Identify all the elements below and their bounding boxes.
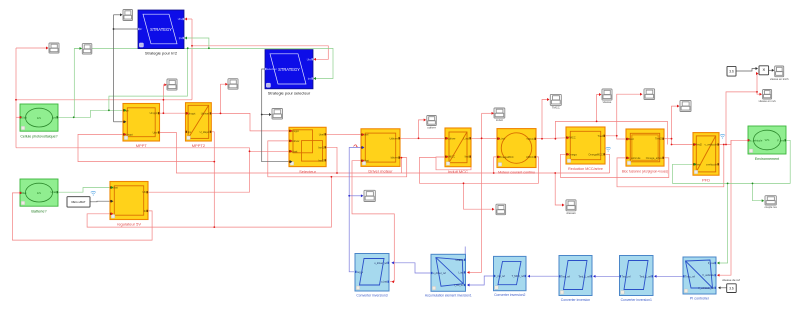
block Converter inversion	[559, 256, 592, 302]
wire F_res loop	[673, 140, 791, 183]
svg-text:STRATEGY: STRATEGY	[150, 27, 172, 32]
svg-text:V_vehicule_ref: V_vehicule_ref	[698, 287, 714, 290]
svg-text:UMCC: UMCC	[526, 155, 534, 159]
arrowhead into PI vref	[718, 286, 721, 289]
wire Isel1 branch	[323, 147, 337, 173]
arrowhead into MPPT Ipv	[124, 109, 127, 112]
wire Umppt right vert	[191, 19, 193, 100]
arrowhead into selecteur Udriver	[290, 139, 293, 142]
junction Ipv branch2	[108, 109, 110, 111]
svg-text:u_bat: u_bat	[381, 281, 387, 284]
svg-text:Upv: Upv	[153, 131, 158, 135]
junction Iind branch	[481, 137, 483, 139]
scope S2 Ipv	[82, 44, 92, 55]
svg-text:Converter inversion1: Converter inversion1	[621, 298, 652, 302]
badge logging badge regubat	[91, 191, 96, 195]
svg-text:UBEC3: UBEC3	[456, 259, 465, 262]
wire strategy2 selecteur net	[262, 69, 291, 162]
arrowhead into PFD Tred2	[694, 143, 697, 146]
svg-text:Tred_1_ref: Tred_1_ref	[578, 275, 590, 278]
wire F_res to PI	[718, 183, 728, 263]
badge logging badge reduction	[606, 147, 611, 151]
scope S6	[167, 79, 177, 90]
svg-text:Environnement: Environnement	[755, 157, 779, 161]
svg-text:Iind: Iind	[465, 155, 470, 159]
wire Iind to scope	[482, 112, 493, 114]
junction MPPT2 out branch	[220, 113, 222, 115]
block product	[759, 66, 769, 75]
arrowhead into scope MPPT2	[225, 83, 228, 86]
svg-text:Isel1: Isel1	[318, 145, 324, 149]
scope S10 TMCC	[550, 94, 561, 109]
wire Ipv top horiz	[74, 48, 333, 78]
wire MPPT2 out up to scope	[221, 84, 227, 113]
scope S17 imcc	[496, 204, 506, 215]
svg-text:Udriver: Udriver	[291, 139, 299, 143]
scope S11 vitesse	[602, 89, 612, 104]
svg-text:STRATEGY: STRATEGY	[278, 67, 300, 72]
arrowhead into regulateur p3	[111, 212, 114, 215]
svg-text:Udd: Udd	[22, 115, 27, 119]
arrowhead into MPPT2 Umppt	[186, 112, 189, 115]
block Accumulation element inversion1	[425, 254, 472, 297]
arrowhead into scope couple	[762, 199, 765, 202]
arrowhead into scope4	[269, 113, 272, 116]
wire Tred to S18	[617, 94, 641, 136]
scope S7 udriver	[427, 116, 437, 130]
wire S16 feed	[555, 173, 563, 205]
svg-text:Isel2: Isel2	[318, 158, 324, 162]
wire vv to mult	[756, 74, 759, 92]
svg-text:V_vehicule: V_vehicule	[702, 274, 714, 277]
svg-text:Accumulation element inversion: Accumulation element inversion1	[425, 294, 472, 298]
wire Umppt to scope Upv	[16, 47, 47, 49]
svg-text:ES: ES	[37, 116, 41, 120]
arrowhead into scope S17	[492, 208, 495, 211]
wire UMCC loop	[436, 157, 471, 170]
arrowhead into reduction TMCC	[567, 136, 570, 139]
svg-text:vitesse en km/h: vitesse en km/h	[770, 77, 789, 81]
junction vv up branch	[756, 91, 758, 93]
svg-text:v_vehicule: v_vehicule	[750, 138, 763, 142]
junction Umppt strategy branch	[191, 45, 193, 47]
block regulateur 5V	[110, 182, 148, 227]
wire Ipv up vert	[73, 48, 75, 117]
wire accum to conv3	[392, 263, 431, 273]
svg-text:Converter inversion3: Converter inversion3	[356, 293, 387, 297]
wire conv to conv2	[528, 275, 560, 277]
svg-text:OmegaMCC: OmegaMCC	[499, 155, 514, 159]
junction U_dispo mid branch	[213, 161, 215, 163]
svg-text:udriver: udriver	[427, 126, 436, 130]
wire TMCC out	[533, 138, 568, 139]
junction vv branch2	[725, 144, 727, 146]
block PI controller	[683, 257, 716, 300]
arrowhead into reduction Omega	[567, 153, 570, 156]
svg-text:WS: WS	[765, 138, 770, 142]
scope S14 vitesse m/s	[759, 90, 777, 104]
svg-text:Tred: Tred	[598, 134, 604, 138]
block Converter inversion3	[355, 254, 389, 298]
wire S17 feed	[464, 183, 494, 209]
wire Ipv main	[58, 110, 125, 117]
block Bloc fusionne	[622, 129, 668, 173]
svg-text:Udriver: Udriver	[201, 111, 209, 115]
arrowhead into scope kmh	[772, 69, 775, 72]
arrowhead into conv1	[654, 275, 657, 278]
wire Tred upper horiz	[555, 121, 667, 144]
arrowhead into selecteur sel	[290, 160, 293, 163]
junction Tred2 join	[671, 144, 673, 146]
scope S16 vitesse arbre	[566, 200, 576, 215]
junction TMCC branch	[541, 138, 543, 140]
wire Omega moteur feed	[494, 157, 499, 173]
arrowhead into scope vitesse	[599, 93, 602, 96]
svg-text:Omega: Omega	[568, 152, 577, 156]
scope S1 Upv	[49, 43, 59, 53]
svg-text:vitesse en m/s: vitesse en m/s	[759, 99, 777, 103]
junction Umppt left	[15, 99, 17, 101]
svg-text:I_ind: I_ind	[458, 271, 464, 274]
arrowhead into scope S12	[677, 105, 680, 108]
junction vitesse branch	[596, 121, 598, 123]
wire batterie Ubat out	[58, 188, 112, 193]
wire v_vehicule out	[719, 144, 731, 146]
svg-text:Strategie pour Irr2: Strategie pour Irr2	[145, 50, 178, 55]
junction Omega moteur join	[493, 172, 495, 174]
arrowhead into strategy2 Ipv	[314, 77, 317, 80]
wire bk scope3 stub	[114, 14, 122, 16]
wire MPPT out up to scope	[163, 85, 165, 113]
block Reduction MCC arbre	[566, 127, 605, 171]
block Cellule photovoltaique	[20, 104, 58, 138]
svg-text:regulateur 5V: regulateur 5V	[117, 222, 141, 227]
arrowhead into fusion vv	[627, 156, 630, 159]
block MPPT	[123, 104, 160, 149]
arrowhead into scope S16b	[562, 204, 565, 207]
junction U_dispo bottom	[213, 226, 215, 228]
svg-text:Ubat: Ubat	[51, 190, 57, 194]
wire Tred2 to PFD	[672, 139, 695, 145]
junction bk branch1	[113, 28, 115, 30]
svg-text:Irr: Irr	[140, 28, 142, 31]
arrowhead into PI v_vehicule	[717, 274, 720, 277]
arrowhead into scope ms	[760, 93, 763, 96]
svg-text:MPPT2: MPPT2	[192, 143, 206, 148]
svg-text:Ibat: Ibat	[22, 191, 27, 195]
block Driver moteur	[361, 129, 400, 174]
block PFD	[693, 133, 719, 183]
svg-text:Reduction MCC/arbre: Reduction MCC/arbre	[568, 167, 603, 171]
svg-text:Moteur courant continu: Moteur courant continu	[498, 171, 535, 175]
svg-text:Udriver: Udriver	[447, 136, 455, 140]
wire Omega down stub	[602, 154, 610, 173]
junction Idriver join	[401, 157, 403, 159]
wire Umppt net main horiz	[16, 99, 192, 101]
block MPPT2	[186, 103, 212, 149]
arrowhead into mult p1	[756, 67, 759, 70]
svg-text:Tmcc_ref: Tmcc_ref	[685, 275, 695, 278]
wire to scope vitesse	[597, 95, 600, 122]
wire regubat net	[90, 200, 112, 203]
arrowhead into scope induit	[492, 112, 495, 115]
wire reg_u to scope	[349, 195, 362, 197]
arrowhead into fusion Tred	[627, 138, 630, 141]
scope S15 vitesse km/h	[770, 66, 789, 81]
svg-text:Cellule photovoltaique?: Cellule photovoltaique?	[20, 134, 57, 138]
wire Tred2 to scope	[672, 106, 679, 139]
wire mult to scope kmh	[769, 69, 774, 71]
wire Iind out	[468, 137, 499, 139]
wire TMCC to scope	[542, 100, 548, 139]
junction vv branch1	[723, 144, 725, 146]
scope S13 couple res	[764, 196, 777, 210]
svg-text:MPPT: MPPT	[136, 143, 148, 148]
block constant 3.6 bottom	[727, 284, 737, 293]
scope S5	[228, 79, 238, 90]
arrowhead into driver Usel	[362, 133, 365, 136]
wire MPPT Upv down	[157, 133, 610, 174]
wire Tred2 out	[664, 138, 672, 140]
svg-text:OmegaMCC: OmegaMCC	[588, 152, 603, 156]
svg-text:Umppt: Umppt	[150, 111, 158, 115]
arrowhead into strategy1 Ubv	[185, 18, 188, 21]
svg-text:TMCC: TMCC	[568, 136, 576, 140]
arrowhead into env	[748, 139, 751, 142]
scope S9 ubat	[364, 190, 375, 201]
block Converter inversion2	[494, 256, 527, 297]
svg-text:Idriver: Idriver	[391, 156, 398, 160]
wire const36 to mult	[736, 69, 757, 72]
arrowhead into moteur Iind	[498, 137, 501, 140]
wire reg_u up	[349, 148, 363, 272]
wire conv2 to accum	[468, 276, 494, 285]
wire vv feedback	[617, 145, 724, 187]
junction UMCC scope join	[463, 182, 465, 184]
junction Tred upper branch1	[555, 138, 557, 140]
arrowhead into accum Iind	[467, 271, 470, 274]
svg-text:I_ind_ref: I_ind_ref	[454, 284, 464, 287]
badge logging badge PFD	[720, 134, 725, 138]
block Strategie pour selecteur U2	[265, 50, 313, 96]
arrowhead into accum iref	[467, 284, 470, 287]
arrowhead into scope Upv	[46, 47, 49, 50]
svg-text:PFD: PFD	[702, 177, 710, 182]
block Strategie pour Irr2 U1	[138, 10, 184, 55]
block Induit MCC	[445, 128, 471, 174]
junction F_res branch PI	[727, 183, 729, 185]
block Selecteur	[289, 127, 326, 174]
junction Tred2 branch	[671, 138, 673, 140]
wire MPPT out to MPPT2	[159, 112, 187, 114]
junction S16 join	[554, 172, 556, 174]
svg-text:v_vehicule: v_vehicule	[628, 156, 641, 160]
junction Ipv join top	[187, 47, 189, 49]
scope S3	[123, 10, 133, 21]
arrowhead into scope TMCC	[547, 98, 550, 101]
wire reg Ib to batterie	[12, 193, 152, 240]
svg-text:ES: ES	[37, 191, 41, 195]
svg-text:3.6: 3.6	[729, 286, 734, 290]
block constant 3.6 top	[727, 66, 736, 76]
junction Isel1 join	[336, 172, 338, 174]
wire Iind to accum	[468, 271, 482, 273]
svg-text:I_ind_ref: I_ind_ref	[495, 275, 505, 278]
svg-text:Converter inversion2: Converter inversion2	[494, 293, 525, 297]
arrowhead into PI Fres	[717, 262, 720, 265]
block Batterie	[20, 179, 58, 213]
arrowhead into driver p2	[362, 146, 365, 149]
svg-text:u_driver_ref: u_driver_ref	[374, 262, 387, 265]
wire UMCC out	[420, 157, 539, 183]
svg-text:Converter inversion: Converter inversion	[561, 298, 591, 302]
wire vv up	[726, 92, 757, 145]
junction Udriver branch	[418, 137, 420, 139]
wire bk to scope3	[113, 15, 115, 29]
svg-text:Ub: Ub	[142, 190, 146, 194]
wire bk to scope4	[262, 114, 270, 116]
arrowhead into strategy1 Ipv	[185, 37, 188, 40]
svg-text:TMCC: TMCC	[552, 106, 560, 110]
svg-text:U_dispo: U_dispo	[200, 130, 210, 134]
arrowhead into PFD Fres	[694, 163, 697, 166]
svg-text:reg_u: reg_u	[357, 271, 364, 274]
wire Ipv scope stub	[74, 47, 80, 49]
wire bk to MPPT p2	[114, 121, 125, 123]
junction bk branch2	[261, 114, 263, 116]
junction reg_u branch	[348, 195, 350, 197]
wire PI to conv1	[655, 275, 684, 277]
arrowhead into induit Udriver	[446, 137, 449, 140]
svg-text:I_ind: I_ind	[463, 136, 469, 140]
svg-text:Udriver: Udriver	[389, 136, 397, 140]
wire reg Ub out	[145, 151, 291, 192]
junction F_res branch scope	[752, 183, 754, 185]
wire Usel to driver	[323, 133, 363, 135]
svg-text:3.6: 3.6	[729, 69, 734, 73]
wire U_dispo to MPPT Umppt	[78, 134, 214, 161]
junction Ipv branch1	[73, 116, 75, 118]
wire Umppt to cellule Udd	[16, 116, 20, 118]
junction Tred scope join	[616, 135, 618, 137]
block Environnement	[748, 126, 786, 161]
scope S12	[680, 101, 691, 112]
wire strategy1 left net	[114, 29, 139, 122]
svg-text:v_vehicule: v_vehicule	[705, 143, 718, 147]
block constant REG uBAT	[67, 197, 90, 207]
svg-text:induit: induit	[496, 118, 503, 122]
scope S4	[272, 109, 283, 120]
wire vv to env	[731, 140, 748, 144]
arrowhead into induit UMCC	[446, 155, 449, 158]
svg-text:Tred_1_ref: Tred_1_ref	[639, 275, 651, 278]
wire Umppt to strategy1 Ubv	[186, 18, 192, 20]
block Converter inversion1	[620, 256, 654, 302]
svg-text:Bloc fusionné (vis/pignon+roue: Bloc fusionné (vis/pignon+roues)	[622, 169, 668, 173]
svg-text:Induit MCC: Induit MCC	[448, 169, 468, 174]
arrowhead into conv3 ubat	[392, 280, 395, 283]
wire Iind vert	[481, 113, 483, 272]
wire u_bat vert	[352, 161, 394, 282]
block Moteur courant continu	[497, 129, 536, 175]
arrowhead into scope3	[120, 13, 123, 16]
arrowhead into moteur Omega	[498, 155, 501, 158]
svg-text:F_res: F_res	[777, 138, 784, 142]
junction bottom loop branch	[331, 176, 333, 178]
scope S8 induit	[494, 108, 505, 122]
svg-text:Tred2: Tred2	[655, 137, 662, 141]
wire Idriver loop	[268, 141, 407, 177]
svg-text:Strategie pour selecteur: Strategie pour selecteur	[268, 91, 311, 96]
arrowhead into conv3 udrv	[391, 261, 394, 264]
arrowhead into scope Umppt	[164, 83, 167, 86]
wire accum top stub	[464, 247, 466, 260]
svg-text:REG uBAT: REG uBAT	[71, 200, 85, 204]
wire U_dispo down	[211, 132, 214, 227]
arrowhead into scope Ipv	[80, 47, 83, 50]
wire Umppt net left vert	[15, 48, 17, 148]
junction MPPT out branch	[163, 112, 165, 114]
wire Udriver to scope	[419, 120, 426, 138]
svg-text:Selecteur: Selecteur	[299, 169, 317, 174]
wire Idriver stub	[400, 158, 402, 173]
wire Udriver out	[397, 137, 447, 139]
arrowhead into regulateur Ubat	[111, 186, 114, 189]
wire bottom loop	[87, 177, 331, 227]
wire Ipv to strategy1	[186, 38, 209, 48]
svg-text:selecteur: selecteur	[267, 68, 277, 71]
svg-text:vvehicule: vvehicule	[706, 162, 717, 166]
arrowhead into driver Ubat	[362, 159, 365, 162]
wire left feed horiz	[16, 148, 250, 152]
arrowhead into mult p2	[756, 72, 759, 75]
svg-text:Batterie?: Batterie?	[31, 209, 46, 213]
arrowhead into conv	[593, 275, 596, 278]
arrowhead into scope S18	[640, 93, 643, 96]
svg-text:UMCC: UMCC	[447, 155, 455, 159]
svg-text:PI controller: PI controller	[690, 296, 710, 300]
svg-text:vitesse de ref: vitesse de ref	[722, 278, 740, 282]
svg-text:T_MCC_ref: T_MCC_ref	[512, 275, 525, 278]
arrowhead into regulateur p2	[111, 200, 114, 203]
wire vv to PI	[718, 140, 731, 275]
svg-text:couple res: couple res	[764, 205, 777, 209]
wire Omega_arbre loop	[561, 154, 669, 177]
arrowhead into MPPT p2	[124, 120, 127, 123]
arrowhead into strategy2 Ubv	[314, 58, 317, 61]
svg-text:vitesse: vitesse	[603, 100, 612, 104]
svg-text:vitesse1: vitesse1	[566, 211, 576, 215]
arrowhead into selecteur Umppt	[290, 129, 293, 132]
svg-text:×: ×	[762, 68, 765, 74]
arrowhead into selecteur Ubatt	[290, 150, 293, 153]
wire Umppt strategy2 horiz	[192, 46, 328, 60]
junction Umppt net cross	[163, 99, 165, 101]
arrowhead into MPPT Umppt	[124, 133, 127, 136]
wire u_bat loop	[390, 281, 394, 283]
arrowhead into batterie	[20, 191, 23, 194]
svg-text:Usel: Usel	[319, 132, 325, 136]
arrowhead into conv2	[528, 275, 531, 278]
wire vv to scope ms	[757, 92, 761, 94]
wire Tred out	[602, 136, 628, 139]
annotation mark driver	[354, 145, 358, 147]
junction Ipv strategy1 branch	[208, 47, 210, 49]
scope S18	[644, 89, 655, 100]
wire F_res to scope	[753, 183, 764, 200]
wire Ipv mid riser	[109, 48, 187, 110]
svg-text:u_driver_ref: u_driver_ref	[433, 272, 446, 275]
